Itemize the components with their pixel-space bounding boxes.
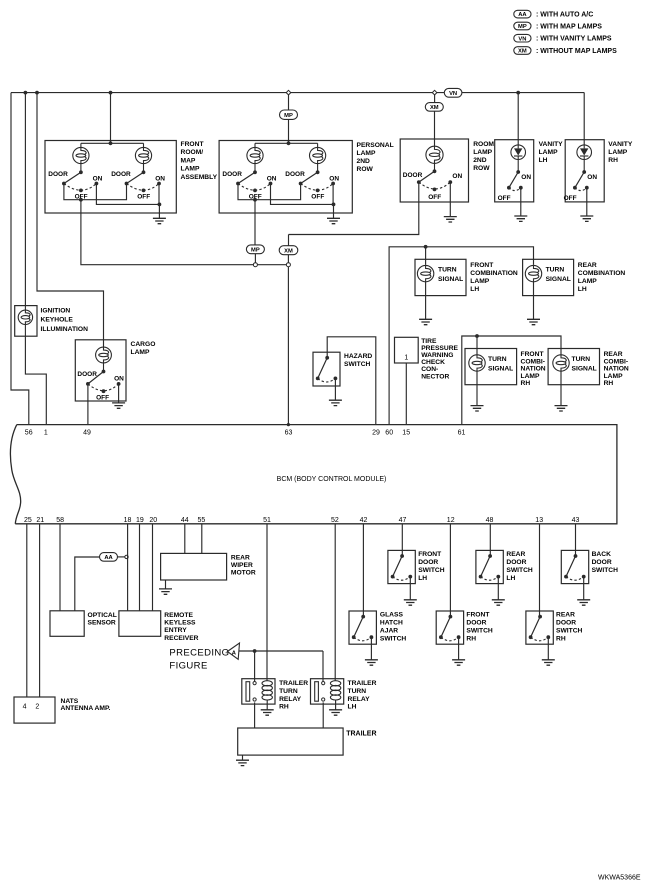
svg-text:SIGNAL: SIGNAL (546, 276, 571, 283)
component box: optical sensor (50, 611, 84, 637)
ground: front combination LH (419, 319, 432, 324)
svg-text:18: 18 (124, 517, 132, 524)
label TRAILER TURN RELAY LH (348, 680, 377, 711)
wire: rail to BCM pin 56 (11, 93, 29, 425)
svg-text:BCM (BODY CONTROL MODULE): BCM (BODY CONTROL MODULE) (277, 476, 387, 483)
svg-text:TURN: TURN (279, 688, 298, 695)
ground: rear door switch RH (542, 660, 555, 665)
svg-text:ROW: ROW (473, 165, 490, 172)
vanity bulb RH (577, 145, 592, 172)
svg-text:COMBI-: COMBI- (521, 358, 546, 365)
label ON (cargo) (114, 376, 124, 383)
svg-text:SWITCH: SWITCH (380, 636, 407, 643)
svg-text:LAMP: LAMP (470, 278, 489, 285)
wire: rear door switch RH to ground (547, 637, 549, 660)
svg-text:ON: ON (587, 174, 597, 181)
svg-text:PERSONAL: PERSONAL (357, 142, 394, 149)
svg-text:SWITCH: SWITCH (466, 628, 493, 635)
wire: BCM to glass hatch ajar switch (362, 524, 364, 617)
ground: box1 (153, 218, 166, 223)
tag MP on front-lamp feed (280, 95, 298, 143)
wire: box1 OFF to MP node (81, 200, 254, 265)
ground: back door switch (577, 600, 590, 605)
svg-text:ON: ON (155, 176, 165, 183)
svg-text:SWITCH: SWITCH (592, 567, 619, 574)
legend entry VN (514, 34, 612, 42)
wire: MP node to XM node (257, 264, 286, 266)
svg-text:MP: MP (251, 247, 260, 253)
wire: front LH lamp to ground (425, 282, 427, 320)
wire: drop to front combination lamp RH (476, 336, 478, 355)
ground: trailer turn relay RH (261, 710, 274, 715)
label OFF (box2 right) (311, 193, 324, 200)
svg-text:NATS: NATS (61, 698, 79, 705)
label ON (box1 right) (155, 176, 165, 183)
label VANITY LAMP LH (539, 141, 564, 164)
svg-text:47: 47 (399, 517, 407, 524)
svg-text:TRAILER: TRAILER (348, 680, 377, 687)
svg-text:FRONT: FRONT (418, 551, 442, 558)
pin 2 label (NATS) (35, 704, 39, 711)
wire: rail to cargo lamp feed (37, 93, 104, 347)
pin 52 label (BCM bottom) (331, 517, 339, 524)
svg-text:44: 44 (181, 517, 189, 524)
svg-text:ON: ON (114, 376, 124, 383)
bulb: ignition keyhole illumination (18, 306, 32, 337)
wire: rear RH lamp to ground (560, 371, 562, 405)
svg-text:RH: RH (556, 636, 566, 643)
svg-text:CHECK: CHECK (421, 359, 445, 366)
label DOOR (box2 right) (285, 171, 305, 178)
bulb: turn signal front RH (469, 355, 485, 371)
wire: XM node down to BCM pin 63 (287, 267, 290, 427)
wire: BCM to rear door switch LH (489, 524, 491, 556)
svg-text:ROOM/: ROOM/ (181, 149, 204, 156)
svg-text:DOOR: DOOR (111, 171, 131, 178)
node: rail junction to front room lamp (109, 91, 113, 95)
label ON (box2 left) (267, 176, 277, 183)
bulb: room lamp 2nd row (426, 146, 443, 171)
label FRONT ROOM/MAP LAMP ASSEMBLY (181, 141, 218, 181)
svg-text:ON: ON (452, 173, 462, 180)
label OFF (vanity LH) (498, 195, 511, 202)
switch: rear door switch LH (479, 554, 500, 580)
svg-text:ROOM: ROOM (473, 141, 494, 148)
svg-text:DOOR: DOOR (48, 171, 68, 178)
svg-text:FRONT: FRONT (470, 262, 494, 269)
ground: rear combination RH (555, 406, 568, 411)
wire: drop to trailer turn relay RH (254, 651, 256, 682)
svg-text:IGNITION: IGNITION (41, 307, 71, 314)
node: MP option connector (253, 263, 257, 267)
lamp box: REAR COMBINATION LAMP LH (523, 259, 574, 295)
switch: cargo lamp door switch (86, 370, 121, 394)
ground: rear door switch LH (492, 600, 505, 605)
svg-text:29: 29 (372, 429, 380, 436)
label DOOR (room lamp) (403, 172, 423, 179)
svg-text:LAMP: LAMP (604, 373, 623, 380)
label PERSONAL LAMP 2ND ROW (357, 142, 394, 173)
lamp box: VANITY LAMP RH (565, 140, 604, 202)
svg-text:SIGNAL: SIGNAL (572, 366, 597, 373)
pin 18 label (BCM bottom) (124, 517, 132, 524)
wire: optical sensor AA branch (75, 557, 100, 611)
svg-text:: WITH MAP LAMPS: : WITH MAP LAMPS (536, 23, 602, 30)
node: rail junction to cargo-lamp feed (35, 91, 39, 95)
node: rail junction to vanity LH (516, 91, 520, 95)
pin 48 label (BCM bottom) (486, 517, 494, 524)
wire: internal lamp bus box2 (255, 141, 318, 145)
svg-text:ON: ON (521, 174, 531, 181)
svg-text:WARNING: WARNING (421, 352, 453, 359)
wire: relay LH output to trailer (322, 702, 324, 728)
wire: AA tag to pin-18 wire (118, 556, 125, 558)
lamp box: FRONT ROOM/MAP LAMP ASSEMBLY (45, 141, 176, 214)
svg-text:MP: MP (518, 24, 527, 30)
label ON (vanity LH) (521, 174, 531, 181)
ground: box2 (327, 218, 340, 223)
svg-text:LAMP: LAMP (578, 278, 597, 285)
lamp box: PERSONAL LAMP 2ND ROW (219, 141, 352, 214)
component box: tire pressure warning check connector (395, 337, 419, 363)
lamp box: ROOM LAMP 2ND ROW (400, 139, 468, 202)
svg-text:RECEIVER: RECEIVER (164, 635, 198, 642)
label TURN SIGNAL (rear RH) (572, 356, 597, 372)
label IGNITION KEYHOLE ILLUMINATION (41, 307, 89, 332)
svg-text:WIPER: WIPER (231, 562, 253, 569)
switch: glass hatch ajar switch (352, 615, 373, 641)
svg-text:ANTENNA AMP.: ANTENNA AMP. (61, 705, 111, 712)
svg-text:AJAR: AJAR (380, 628, 398, 635)
svg-text:RELAY: RELAY (348, 696, 371, 703)
svg-text:LAMP: LAMP (608, 149, 627, 156)
svg-text:FRONT: FRONT (466, 612, 490, 619)
svg-text:ON: ON (329, 176, 339, 183)
wire: room lamp DOOR to XM tag (289, 182, 419, 234)
svg-text:NATION: NATION (521, 366, 546, 373)
pin 47 label (BCM bottom) (399, 517, 407, 524)
wire: BCM pin 58 to optical sensor (59, 524, 61, 611)
component box: cargo lamp (75, 340, 126, 401)
switch: room lamp 2nd row (417, 169, 452, 191)
legend entry MP (514, 22, 603, 30)
lamp box: FRONT COMBINATION LAMP RH (465, 349, 517, 385)
pin 25 label (BCM bottom) (24, 517, 32, 524)
wire: box2 DOOR bus (238, 184, 301, 202)
tag VN inline on rail (444, 88, 462, 97)
svg-text:NATION: NATION (604, 366, 629, 373)
svg-text:MOTOR: MOTOR (231, 570, 256, 577)
lamp box: FRONT COMBINATION LAMP LH (415, 259, 466, 295)
label ON (vanity RH) (587, 174, 597, 181)
svg-text:ON: ON (267, 176, 277, 183)
svg-text:AA: AA (104, 555, 113, 561)
relay: TRAILER TURN RELAY RH (242, 679, 275, 704)
wire: cargo ON to ground (118, 384, 120, 403)
wire: BCM to back door switch (575, 524, 577, 556)
bulb: personal lamp RH (310, 143, 326, 172)
svg-text:TURN: TURN (348, 688, 367, 695)
svg-text:XM: XM (284, 248, 293, 254)
wire: relay LH coil to ground (335, 700, 337, 710)
svg-text:TURN: TURN (572, 356, 591, 363)
svg-text:: WITH VANITY LAMPS: : WITH VANITY LAMPS (536, 36, 612, 43)
pin 4 label (NATS) (23, 704, 27, 711)
wire: rail drop into front room/map lamp assembly (110, 93, 112, 144)
svg-text:DOOR: DOOR (466, 620, 486, 627)
pin 42 label (BCM bottom) (360, 517, 368, 524)
wire: BCM pin 18 to keyless receiver (127, 524, 129, 611)
svg-text:HAZARD: HAZARD (344, 353, 372, 360)
svg-text:REAR: REAR (604, 351, 623, 358)
label OFF (box1 left) (75, 193, 88, 200)
bulb: map lamp RH (135, 143, 151, 172)
svg-text:LAMP: LAMP (181, 166, 200, 173)
switch: vanity lamp RH (573, 170, 589, 191)
wire: rail drop to vanity lamp LH (517, 93, 519, 145)
svg-text:TURN: TURN (438, 267, 457, 274)
svg-text:RH: RH (466, 636, 476, 643)
label CARGO LAMP (131, 341, 156, 356)
svg-text:TRAILER: TRAILER (346, 731, 376, 738)
label NATS ANTENNA AMP. (61, 698, 111, 712)
pin 21 label (BCM bottom) (36, 517, 44, 524)
label OFF (box1 right) (137, 193, 150, 200)
svg-text:RH: RH (279, 704, 289, 711)
wire: BCM to front door switch RH (449, 524, 451, 617)
wire: vanity RH to ground (586, 188, 588, 216)
svg-text:DOOR: DOOR (77, 371, 97, 378)
svg-text:COMBI-: COMBI- (604, 358, 629, 365)
lamp box: REAR COMBINATION LAMP RH (548, 349, 599, 385)
switch: personal lamp LH door switch (236, 170, 272, 192)
label FRONT COMBI-NATION LAMP RH (521, 351, 546, 387)
tag AA on optical sensor branch (100, 553, 118, 562)
label DOOR (box1 right) (111, 171, 131, 178)
svg-text:25: 25 (24, 517, 32, 524)
node: MP option connector on rail (286, 90, 291, 95)
svg-text:60: 60 (385, 429, 393, 436)
wire: box2 OFF down to MP tag (254, 200, 256, 245)
wire: trailer to ground (242, 755, 244, 760)
wire: BCM pin 21 to NATS antenna amp pin 2 (39, 524, 41, 697)
label OFF (room lamp) (428, 194, 441, 201)
svg-text:1: 1 (44, 429, 48, 436)
label OPTICAL SENSOR (88, 612, 117, 627)
wire: BCM pin 25 to NATS antenna amp pin 4 (26, 524, 28, 697)
switch: front door switch LH (391, 554, 412, 580)
switch: rear door switch RH (529, 615, 551, 641)
svg-text:REAR: REAR (578, 262, 597, 269)
legend entry XM (514, 47, 617, 55)
svg-text:TURN: TURN (488, 356, 507, 363)
relay: TRAILER TURN RELAY LH (311, 679, 344, 704)
bulb: cargo lamp (96, 347, 112, 371)
label DOOR (box2 left) (222, 171, 242, 178)
node: rail junction to pin-56 drop (24, 91, 28, 95)
wire: front door switch RH to ground (458, 637, 460, 660)
pin 55 label (BCM bottom) (198, 517, 206, 524)
wire: rear door switch LH to ground (497, 577, 499, 600)
svg-text:COMBINATION: COMBINATION (470, 270, 518, 277)
svg-text:REAR: REAR (231, 555, 250, 562)
label rear door switch LH (506, 551, 533, 582)
label REAR WIPER MOTOR (231, 555, 256, 577)
bulb: turn signal front LH (417, 265, 433, 281)
svg-text:51: 51 (263, 517, 271, 524)
svg-text:VN: VN (518, 36, 526, 42)
wire: glass hatch ajar switch to ground (370, 637, 372, 660)
legend entry AA (514, 10, 593, 18)
pin 19 label (BCM bottom) (136, 517, 144, 524)
svg-text:LH: LH (470, 286, 479, 293)
pin 43 label (BCM bottom) (572, 517, 580, 524)
svg-text:SENSOR: SENSOR (88, 620, 116, 627)
svg-text:TIRE: TIRE (421, 338, 437, 345)
label ON (box2 right) (329, 176, 339, 183)
wire: rail to ignition keyhole illumination and BCM pin 1 (25, 93, 46, 425)
ground: trailer turn relay LH (329, 710, 342, 715)
svg-text:12: 12 (447, 517, 455, 524)
switch: map lamp RH door switch (125, 170, 161, 192)
svg-text:LH: LH (539, 157, 548, 164)
svg-text:TURN: TURN (546, 267, 565, 274)
pin 1 label (BCM top) (44, 429, 48, 436)
svg-text:REAR: REAR (506, 551, 525, 558)
component box: ignition keyhole illumination (15, 306, 37, 337)
svg-text:LAMP: LAMP (357, 150, 376, 157)
ground: rear wiper motor (159, 589, 172, 594)
pin 29 label (BCM top) (372, 429, 380, 436)
svg-text:OFF: OFF (498, 195, 511, 202)
svg-text:2: 2 (35, 704, 39, 711)
svg-text:19: 19 (136, 517, 144, 524)
svg-text:2ND: 2ND (473, 157, 487, 164)
wire: front door switch LH to ground (409, 577, 411, 600)
svg-text:55: 55 (198, 517, 206, 524)
wire: drop to trailer turn relay LH (322, 651, 324, 682)
wire: vanity LH to ground (520, 188, 522, 216)
svg-text:DOOR: DOOR (285, 171, 305, 178)
wire: relay RH output to trailer (254, 702, 256, 728)
svg-text:DOOR: DOOR (403, 172, 423, 179)
svg-text:LAMP: LAMP (521, 373, 540, 380)
component box: trailer (238, 728, 343, 755)
label OFF (cargo) (96, 395, 109, 402)
svg-text:LH: LH (578, 286, 587, 293)
wire: drop to front combination lamp LH (425, 247, 427, 265)
wire: BCM to front door switch LH (401, 524, 403, 556)
label VANITY LAMP RH (608, 141, 633, 164)
svg-text:VN: VN (449, 91, 457, 97)
svg-text:XM: XM (430, 105, 439, 111)
svg-text:42: 42 (360, 517, 368, 524)
wire: box1 DOOR bus (64, 184, 127, 202)
ground: room lamp (444, 217, 457, 222)
label front door switch RH (466, 612, 493, 643)
svg-text:43: 43 (572, 517, 580, 524)
wire: BCM pin 52 to trailer turn relay LH coil (334, 524, 336, 681)
svg-text:LH: LH (348, 704, 357, 711)
svg-text:TRAILER: TRAILER (279, 680, 308, 687)
ground: hazard switch (329, 400, 342, 405)
wire: BCM pin 20 to keyless receiver (152, 524, 154, 611)
wire: internal lamp bus box1 (81, 141, 144, 145)
node: AA connector circle (125, 555, 128, 558)
svg-text:56: 56 (25, 429, 33, 436)
label BCM (BODY CONTROL MODULE) (277, 476, 387, 483)
wire: box1 ON bus to ground (96, 184, 161, 219)
pin 44 label (BCM bottom) (181, 517, 189, 524)
svg-text:HATCH: HATCH (380, 620, 403, 627)
label TURN SIGNAL (front RH) (488, 356, 513, 372)
pin 58 label (BCM bottom) (56, 517, 64, 524)
svg-text:15: 15 (402, 429, 410, 436)
svg-text:VANITY: VANITY (539, 141, 564, 148)
wire: front RH lamp to ground (476, 371, 478, 405)
wire: BCM pin 44 to rear wiper motor (184, 524, 186, 554)
ground: cargo lamp (112, 403, 125, 408)
label REAR COMBINATION LAMP LH (578, 262, 626, 293)
label DOOR (cargo) (77, 371, 97, 378)
svg-text:61: 61 (458, 429, 466, 436)
svg-text:: WITHOUT MAP LAMPS: : WITHOUT MAP LAMPS (536, 48, 617, 55)
svg-text:GLASS: GLASS (380, 612, 404, 619)
wire: rear LH lamp to ground (533, 282, 535, 320)
ground: rear combination LH (527, 319, 540, 324)
svg-text:DOOR: DOOR (556, 620, 576, 627)
pin 12 label (BCM bottom) (447, 517, 455, 524)
wire: top battery feed rail (11, 92, 584, 94)
wire: tire connector to BCM pin 15 (405, 363, 407, 425)
svg-text:MP: MP (284, 113, 293, 119)
svg-text:63: 63 (285, 429, 293, 436)
pin 51 label (BCM bottom) (263, 517, 271, 524)
switch: map lamp LH door switch (62, 170, 98, 192)
ground: vanity lamp RH (580, 216, 593, 221)
svg-text:PRESSURE: PRESSURE (421, 345, 458, 352)
pin 15 label (BCM top) (402, 429, 410, 436)
svg-text:RH: RH (521, 380, 531, 387)
svg-text:SWITCH: SWITCH (344, 361, 371, 368)
connector: preceding figure triangle A (227, 643, 239, 659)
svg-text:LH: LH (418, 575, 427, 582)
wire: hazard switch to ground (334, 378, 336, 400)
label front door switch LH (418, 551, 445, 582)
component box: NATS antenna amp (14, 697, 55, 723)
svg-text:RH: RH (604, 380, 614, 387)
wire: BCM pin 55 to rear wiper motor (201, 524, 203, 554)
label glass hatch ajar switch (380, 612, 407, 643)
wire: relay RH coil to ground (266, 700, 268, 710)
pin 20 label (BCM bottom) (149, 517, 157, 524)
pin 60 label (BCM top) (385, 429, 393, 436)
svg-text:A: A (232, 650, 237, 656)
svg-text:DOOR: DOOR (418, 559, 438, 566)
component box: BCM (BODY CONTROL MODULE) (10, 425, 617, 524)
wire: BCM pin 19 to keyless receiver (139, 524, 141, 611)
wire: BCM pin 61 to RH turn signal lamps (462, 334, 561, 425)
ground: front door switch RH (452, 660, 465, 665)
component box: remote keyless entry receiver (119, 611, 161, 637)
svg-text:LH: LH (506, 575, 515, 582)
svg-text:REAR: REAR (556, 612, 575, 619)
bulb: turn signal rear RH (553, 355, 569, 371)
wire: rail drop to vanity lamp RH (583, 93, 585, 145)
svg-text:DOOR: DOOR (506, 559, 526, 566)
svg-text:AA: AA (518, 12, 527, 18)
svg-text:58: 58 (56, 517, 64, 524)
